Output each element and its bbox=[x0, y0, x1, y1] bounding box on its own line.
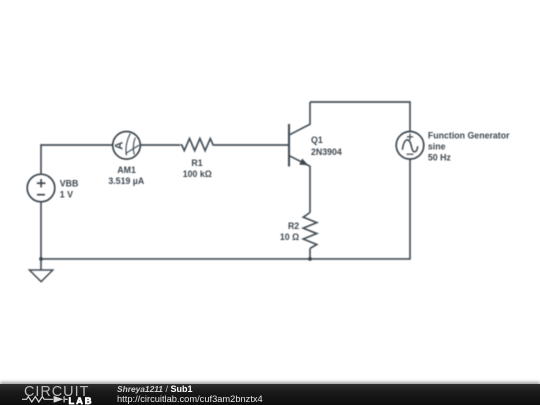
svg-text:R1: R1 bbox=[191, 158, 202, 168]
svg-text:100 kΩ: 100 kΩ bbox=[183, 169, 212, 179]
svg-text:A: A bbox=[114, 142, 126, 150]
svg-text:Function Generator: Function Generator bbox=[428, 130, 510, 140]
svg-text:2N3904: 2N3904 bbox=[311, 147, 342, 157]
svg-text:1 V: 1 V bbox=[60, 190, 73, 200]
svg-text:Q1: Q1 bbox=[311, 135, 323, 145]
svg-text:LAB: LAB bbox=[69, 395, 94, 405]
svg-text:10 Ω: 10 Ω bbox=[280, 232, 299, 242]
svg-text:50 Hz: 50 Hz bbox=[428, 152, 452, 162]
svg-text:R2: R2 bbox=[288, 221, 299, 231]
svg-text:AM1: AM1 bbox=[117, 165, 136, 175]
svg-text:VBB: VBB bbox=[60, 178, 79, 188]
svg-text:sine: sine bbox=[428, 141, 446, 151]
svg-text:3.519 µA: 3.519 µA bbox=[108, 176, 145, 186]
